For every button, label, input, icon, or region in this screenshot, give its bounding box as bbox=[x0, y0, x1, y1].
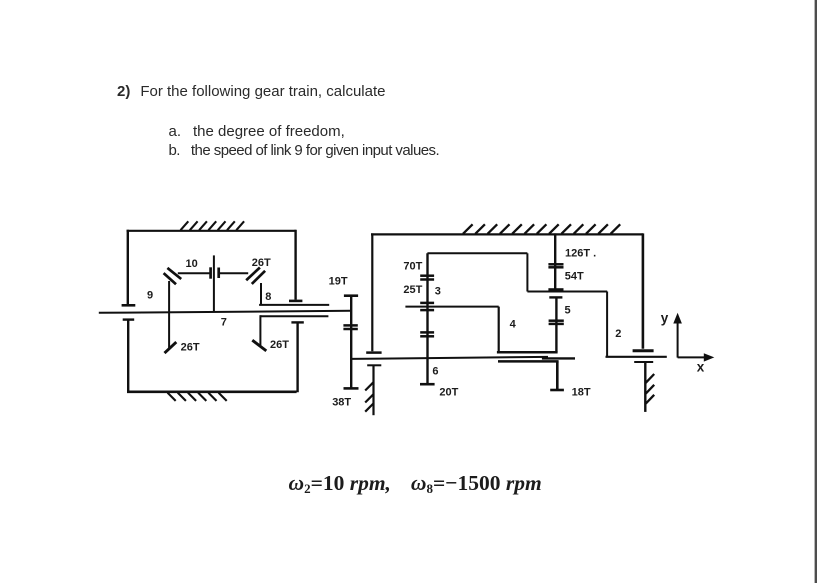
item b bbox=[169, 142, 440, 159]
svg-text:2: 2 bbox=[615, 328, 621, 340]
frame right rail bbox=[642, 233, 645, 348]
shaft 9 bbox=[99, 311, 351, 313]
link top horizontal (70T to corner) bbox=[427, 252, 527, 254]
frame right rail lower bbox=[296, 323, 298, 392]
gear 25T mesh bar b bbox=[420, 309, 434, 312]
frame left rail upper bbox=[127, 230, 129, 304]
svg-text:54T: 54T bbox=[565, 271, 584, 283]
output shaft right bbox=[606, 356, 667, 358]
bevel gear 10-left stroke b bbox=[164, 273, 176, 284]
bearing cap on lower shaft left bbox=[366, 351, 381, 354]
problem statement line 1 bbox=[117, 83, 385, 100]
y axis arrowhead bbox=[673, 313, 682, 324]
gear 6 mesh bar b bbox=[420, 335, 434, 338]
ground bearing stub right bbox=[644, 363, 646, 412]
ground hatching top-right bbox=[463, 224, 620, 234]
gear 70T mesh bar b bbox=[420, 278, 434, 281]
x axis arrowhead bbox=[704, 353, 715, 361]
lower shaft (link 6) bbox=[351, 357, 548, 359]
frame 7 bottom rail bbox=[127, 390, 297, 393]
gear 6 bottom cap (20T) bbox=[420, 383, 435, 386]
gear 5 mesh bar b bbox=[549, 323, 564, 326]
link 54T horizontal bbox=[527, 291, 607, 293]
svg-text:5: 5 bbox=[565, 305, 571, 317]
svg-text:4: 4 bbox=[510, 318, 517, 330]
arm on shaft 9 (center) bbox=[213, 255, 215, 311]
output hub segment bbox=[542, 357, 575, 359]
svg-text:20T: 20T bbox=[439, 386, 458, 398]
frame left rail (to bearing) bbox=[371, 233, 373, 351]
bevel gear 26T upper stroke a bbox=[246, 268, 260, 281]
gear 25T mesh bar a bbox=[420, 302, 434, 305]
shaft 10 bbox=[178, 272, 211, 274]
gear 2 input stem (126T line) bbox=[554, 233, 556, 288]
ground bearing cap left bbox=[367, 364, 381, 366]
ground hatching bottom-left bbox=[168, 393, 227, 401]
bearing cap on output shaft bbox=[633, 349, 654, 352]
lower gear 26T-right stem bbox=[259, 315, 261, 345]
ground bearing stub left bbox=[372, 366, 374, 415]
svg-text:126T .: 126T . bbox=[565, 248, 596, 260]
svg-text:26T: 26T bbox=[252, 257, 271, 269]
link 4 vertical bbox=[498, 307, 500, 353]
link 8 sleeve top bbox=[259, 304, 329, 306]
bearing cap above shaft 9 bbox=[122, 304, 136, 307]
svg-text:9: 9 bbox=[147, 290, 153, 302]
gear 3-6 blank bbox=[426, 253, 428, 384]
gear 19T top cap bbox=[344, 294, 358, 297]
gear 6 mesh bar a bbox=[420, 331, 434, 334]
frame left rail lower bbox=[127, 320, 129, 392]
svg-text:7: 7 bbox=[221, 317, 227, 329]
svg-text:26T: 26T bbox=[270, 339, 289, 351]
gear 19T-38T mesh bar a bbox=[343, 324, 357, 327]
given values formula bbox=[289, 471, 542, 497]
gear 18T bottom cap bbox=[550, 389, 564, 392]
bearing cap below shaft 9 bbox=[123, 318, 135, 320]
bevel gear 10-left stroke a bbox=[167, 268, 181, 279]
gear 5 mesh bar a bbox=[549, 319, 564, 322]
svg-text:19T: 19T bbox=[329, 275, 348, 287]
x axis line bbox=[678, 356, 706, 358]
bevel gear 26T lower-left stroke bbox=[165, 342, 177, 353]
gear 5 top cap bbox=[549, 296, 562, 298]
ground hatching on right bearing bbox=[645, 374, 654, 404]
svg-text:y: y bbox=[661, 311, 669, 326]
frame 7 top rail bbox=[127, 230, 296, 232]
gear 18T stem bbox=[556, 361, 559, 389]
link 2 vertical bbox=[606, 292, 608, 357]
page scan right edge line bbox=[815, 0, 817, 583]
link 8 sleeve bottom bbox=[260, 315, 328, 317]
svg-text:8: 8 bbox=[265, 291, 271, 303]
arm on shaft 9 (left) bbox=[168, 281, 170, 348]
gear 25T pinion line bbox=[405, 306, 498, 308]
y axis line bbox=[677, 322, 679, 358]
gear 54T mesh bar bbox=[548, 288, 563, 291]
gear 126T mesh bar b bbox=[548, 266, 563, 269]
svg-text:x: x bbox=[697, 360, 705, 375]
gear 70T mesh bar a bbox=[420, 274, 434, 277]
link 4 sleeve bottom bbox=[498, 360, 559, 363]
ground hatching top-left bbox=[181, 221, 245, 230]
gear 19T-38T mesh bar b bbox=[343, 328, 357, 331]
gear 5 stem bbox=[555, 298, 557, 352]
gear 38T bottom cap bbox=[344, 387, 359, 390]
bearing tick left of arm bbox=[209, 267, 212, 278]
svg-text:38T: 38T bbox=[332, 397, 351, 409]
shaft 10 right part bbox=[219, 272, 249, 274]
gear 126T mesh bar a bbox=[548, 263, 563, 266]
gear 19T-38T blank bbox=[350, 295, 352, 388]
ground hatching on left bearing bbox=[365, 382, 373, 412]
link corner vertical bbox=[526, 253, 528, 291]
svg-text:26T: 26T bbox=[181, 342, 200, 354]
bearing cap on sleeve 8 bottom bbox=[291, 321, 303, 323]
bevel gear 26T lower-right stroke bbox=[252, 340, 266, 351]
link 8 vertical bbox=[260, 283, 262, 305]
item a bbox=[169, 123, 345, 140]
svg-text:25T: 25T bbox=[403, 284, 422, 296]
svg-text:6: 6 bbox=[432, 366, 438, 378]
ground bearing cap right bbox=[634, 361, 653, 363]
svg-text:10: 10 bbox=[186, 258, 198, 270]
link 4 sleeve top bbox=[497, 351, 558, 354]
bearing cap on sleeve 8 top bbox=[289, 300, 302, 303]
svg-text:18T: 18T bbox=[572, 386, 591, 398]
svg-text:70T: 70T bbox=[403, 261, 422, 273]
svg-text:3: 3 bbox=[435, 286, 441, 298]
bearing tick right of arm bbox=[217, 268, 220, 279]
frame top rail right assembly bbox=[371, 233, 643, 235]
frame right rail upper bbox=[294, 230, 296, 300]
bevel gear 26T upper stroke b bbox=[252, 271, 265, 284]
